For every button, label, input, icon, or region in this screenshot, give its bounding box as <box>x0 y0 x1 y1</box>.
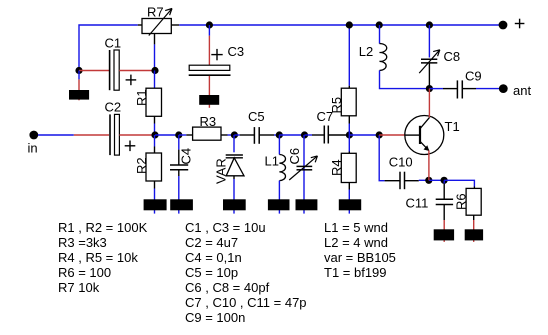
node junction at 444,180.3 <box>441 177 448 184</box>
svg-text:ant: ant <box>513 83 531 98</box>
wire node444 down to C11 (blue then black) <box>443 180 445 199</box>
wire C8 bottom to node (black) <box>428 63 430 89</box>
wire node to node444 (blue) <box>429 179 444 181</box>
wire C3 to ground (red) <box>208 76 210 108</box>
svg-text:T1: T1 <box>445 119 460 134</box>
wire node349 down to R4 (blue then black) <box>348 135 350 153</box>
wire node to C1 left (red) <box>79 70 109 72</box>
svg-text:C4: C4 <box>179 148 194 165</box>
svg-text:C1: C1 <box>105 35 122 50</box>
capacitor C2 (electrolytic) <box>105 100 136 156</box>
wire C2 to node (red) <box>119 134 155 136</box>
svg-text:in: in <box>28 141 38 156</box>
wire T1 emitter (red) <box>428 150 430 180</box>
wire C5 to node279 (black then blue) <box>259 134 279 136</box>
wire node379 mid down to C10 (blue) <box>379 135 384 181</box>
svg-text:C6: C6 <box>287 148 302 165</box>
node junction at 379,135 <box>376 131 383 138</box>
wire R3 right pin (black then blue) <box>221 134 234 136</box>
wire L2 bottom to node429 (blue) <box>380 70 430 88</box>
wire node155 down to R2 (blue then black) <box>154 135 156 153</box>
svg-text:C9: C9 <box>465 68 482 83</box>
svg-text:C3: C3 <box>228 44 245 59</box>
capacitor C3 (electrolytic) <box>189 44 244 75</box>
wire node429 top down to C8 (blue) <box>428 25 430 58</box>
wire C10 right pin (black then blue) <box>405 179 429 181</box>
wire R6 top pin (black) <box>473 187 475 189</box>
wire C9 to ant terminal (black then blue) <box>462 88 500 90</box>
inductor L1 <box>265 153 286 180</box>
ground under C6 <box>296 199 318 210</box>
node junction at 209,25 <box>206 21 213 28</box>
terminal plus <box>499 19 525 30</box>
node junction at 304,135 <box>301 131 308 138</box>
node junction at 179,135 <box>175 131 182 138</box>
ground under C1 node <box>69 90 89 100</box>
svg-text:C1 , C3 = 10u: C1 , C3 = 10u <box>185 220 266 235</box>
svg-text:C5: C5 <box>248 109 265 124</box>
wire R2 bottom to ground (black then blue) <box>154 181 156 214</box>
wire R7 right pin stub <box>171 24 179 26</box>
node junction at 429,88 <box>426 85 433 92</box>
node junction at 429,25 <box>426 21 433 28</box>
wire in to C2 (blue then red) <box>38 134 109 136</box>
ground under C11 <box>434 229 454 240</box>
resistor R1 <box>134 88 162 116</box>
svg-text:R3: R3 <box>200 114 217 129</box>
ground under L1 <box>268 199 290 210</box>
svg-text:C11: C11 <box>406 195 429 210</box>
capacitor C7 <box>317 109 334 144</box>
terminal in <box>28 131 39 156</box>
svg-text:C2: C2 <box>105 100 122 115</box>
wire node304 to C7 (blue then black) <box>305 134 325 136</box>
wire node179 to R3 (blue then black) <box>179 134 193 136</box>
node junction at 428.8,180.3 <box>425 177 432 184</box>
ground under R4 <box>339 199 361 210</box>
wire R7 wiper tap (black then blue) <box>154 34 156 71</box>
svg-text:C4 = 0,1n: C4 = 0,1n <box>185 250 242 265</box>
wire top rail left segment (blue) <box>79 25 138 70</box>
wire varactor to ground (black then blue) <box>233 176 235 214</box>
svg-text:C9 = 100n: C9 = 100n <box>185 310 245 325</box>
svg-text:L2: L2 <box>359 44 373 59</box>
wire node444 to R6 (blue) <box>444 180 474 186</box>
wire node349 to node379 (blue) <box>349 134 379 136</box>
svg-text:T1 = bf199: T1 = bf199 <box>324 265 387 280</box>
wire node279 to node304 (blue) <box>279 134 304 136</box>
svg-text:VAR: VAR <box>214 158 229 184</box>
capacitor C10 <box>389 155 413 190</box>
trimmer capacitor C6 <box>287 148 317 180</box>
wire R6 bottom to ground (black then red) <box>473 215 475 242</box>
wire node209 down to C3 (blue then red) <box>208 25 210 65</box>
wire C7 to node349 (black) <box>328 134 349 136</box>
svg-text:R6 = 100: R6 = 100 <box>58 265 111 280</box>
svg-text:C7 , C10 , C11 = 47p: C7 , C10 , C11 = 47p <box>185 295 307 310</box>
resistor R5 <box>329 88 356 116</box>
wire R7 left pin stub <box>138 24 142 26</box>
wire C10 left pin (black) <box>385 180 400 182</box>
wire node379 to T1 base (red then black) <box>379 134 420 136</box>
svg-text:R7 10k: R7 10k <box>58 280 100 295</box>
inductor L2 <box>359 44 387 71</box>
svg-text:R4: R4 <box>329 159 344 176</box>
svg-text:R6: R6 <box>453 193 468 210</box>
svg-text:L2 = 4 wnd: L2 = 4 wnd <box>324 235 388 250</box>
node junction at 155,135 <box>151 131 158 138</box>
wire R1 bottom pin (black then blue) <box>154 116 156 135</box>
wire node429 to C9 (blue then black) <box>429 88 457 90</box>
node junction at 155,70 <box>151 67 158 74</box>
svg-text:R5: R5 <box>329 97 344 114</box>
ground under R2 <box>144 199 167 210</box>
svg-text:C10: C10 <box>389 155 413 170</box>
wire R5 bottom pin (black then blue) <box>348 116 350 135</box>
svg-text:C5 = 10p: C5 = 10p <box>185 265 238 280</box>
svg-text:C6 , C8 = 40pf: C6 , C8 = 40pf <box>185 280 270 295</box>
svg-text:L1 = 5 wnd: L1 = 5 wnd <box>324 220 388 235</box>
node junction at 279,135 <box>276 131 283 138</box>
varactor diode VAR <box>214 155 245 184</box>
svg-text:R4 , R5 = 10k: R4 , R5 = 10k <box>58 250 138 265</box>
transistor T1 <box>405 116 460 155</box>
wire node304 down through C6 to ground (blue) <box>303 135 305 214</box>
node junction at 349,135 <box>346 131 353 138</box>
potentiometer R7 <box>142 5 172 36</box>
parts list column 1 <box>58 220 148 295</box>
wire R4 to ground (black then blue) <box>348 183 350 214</box>
svg-text:R7: R7 <box>147 5 164 20</box>
wire node279 down to L1 (blue) <box>278 135 280 155</box>
svg-text:C8: C8 <box>444 49 461 64</box>
terminal ant <box>499 83 532 98</box>
svg-text:R1 , R2 = 100K: R1 , R2 = 100K <box>58 220 148 235</box>
capacitor C9 <box>457 68 481 98</box>
wire node155 down to R1 (blue) <box>154 71 156 89</box>
ground under VAR <box>223 199 246 210</box>
parts list column 2 <box>185 220 307 325</box>
wire C11 to ground (black then red) <box>443 205 445 242</box>
capacitor C5 <box>248 109 265 144</box>
svg-text:L1: L1 <box>265 153 279 168</box>
wire node234 down to varactor (blue) <box>233 135 235 152</box>
ground under C4 <box>170 199 193 210</box>
capacitor C4 <box>170 135 194 176</box>
ground under C3 <box>199 95 219 105</box>
svg-text:R3 =3k3: R3 =3k3 <box>58 235 107 250</box>
ground under R6 <box>465 229 483 240</box>
resistor R4 <box>329 153 356 182</box>
wire mid rail node155 to node179 (blue) <box>155 134 179 136</box>
node junction at 379,25 <box>376 21 383 28</box>
wire node379 top down to L2 (blue) <box>379 25 381 44</box>
wire T1 collector (red) <box>428 89 430 118</box>
capacitor C1 (electrolytic) <box>105 35 137 90</box>
parts list column 3 <box>324 220 396 280</box>
capacitor C11 <box>406 195 454 210</box>
wire top rail right segment (blue) <box>179 24 503 26</box>
svg-text:R1: R1 <box>134 89 149 106</box>
wire node234 to C5 (blue then black) <box>234 134 254 136</box>
svg-text:var = BB105: var = BB105 <box>324 250 396 265</box>
resistor R3 <box>193 114 221 140</box>
trimmer capacitor C8 <box>419 49 460 73</box>
wire C4 to ground (blue) <box>178 176 180 214</box>
wire L1 to ground (blue) <box>278 181 280 214</box>
wire node79 down to ground (blue then red) <box>78 71 80 101</box>
resistor R6 <box>453 188 481 215</box>
resistor R2 <box>134 153 162 181</box>
wire top rail node349 down to R5 (blue) <box>348 25 350 88</box>
svg-text:C2 = 4u7: C2 = 4u7 <box>185 235 238 250</box>
node junction at 234,135 <box>231 131 238 138</box>
node junction at 79,70 <box>75 67 82 74</box>
node junction at 349,25 <box>346 21 353 28</box>
wire C1 right to node (red) <box>119 70 155 72</box>
svg-text:R2: R2 <box>134 157 149 174</box>
